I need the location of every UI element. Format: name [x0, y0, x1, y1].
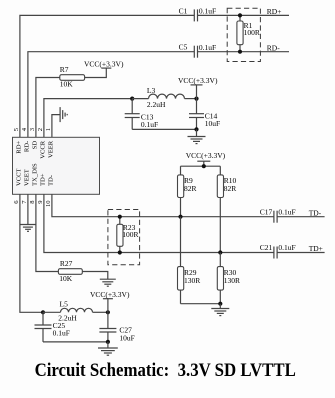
wire RD+ net: pin5 vertical and top horizontal run — [20, 15, 194, 137]
wire C13 to C14 bottom rail — [132, 128, 196, 130]
svg-text:L3: L3 — [147, 86, 156, 95]
svg-text:C1: C1 — [179, 6, 188, 15]
junction R23 bottom — [118, 250, 122, 254]
wire L5 to right junction — [93, 311, 108, 313]
svg-text:100R: 100R — [244, 28, 260, 37]
svg-text:10: 10 — [45, 200, 52, 207]
junction R10 bottom on TD+ — [218, 250, 222, 254]
svg-text:RD+: RD+ — [15, 141, 22, 154]
svg-text:VCC(+3.3V): VCC(+3.3V) — [178, 76, 218, 85]
dashed option box around R1 — [227, 8, 260, 61]
wire junction to L5 — [43, 311, 61, 313]
svg-text:VCCT: VCCT — [15, 168, 22, 186]
capacitor C21 — [260, 243, 296, 258]
IC U1 box — [13, 137, 100, 194]
svg-text:VCC(+3.3V): VCC(+3.3V) — [90, 290, 130, 299]
svg-text:0.1uF: 0.1uF — [199, 43, 216, 52]
ground sideways at VEER — [60, 107, 67, 122]
svg-text:TD-: TD- — [309, 208, 322, 217]
svg-text:C17: C17 — [260, 207, 273, 216]
node junction L3 left — [130, 97, 134, 101]
svg-text:SD: SD — [31, 141, 38, 150]
capacitor C1 — [179, 6, 217, 21]
svg-text:82R: 82R — [224, 184, 237, 193]
wire R27 to ground — [82, 272, 108, 280]
svg-text:RD-: RD- — [267, 43, 280, 52]
wire VEET net: pin7 vertical — [27, 194, 29, 224]
svg-text:TD-: TD- — [47, 175, 54, 186]
junction R23 top — [118, 215, 122, 219]
svg-text:TD+: TD+ — [39, 173, 46, 186]
junction R9 bottom on TD- — [178, 215, 182, 219]
svg-text:VEER: VEER — [47, 140, 54, 158]
capacitor C14 — [189, 99, 220, 130]
svg-text:0.1uF: 0.1uF — [278, 243, 295, 252]
svg-text:100R: 100R — [122, 230, 138, 239]
svg-text:1: 1 — [45, 128, 52, 131]
svg-text:10K: 10K — [59, 274, 73, 283]
node junction C27 bottom — [106, 340, 110, 344]
wire RD+ after C1 — [198, 14, 290, 16]
node junction VCC rail — [202, 164, 206, 168]
wire R7 to VCC — [85, 68, 107, 77]
ground below R30 — [211, 304, 229, 316]
svg-text:0.1uF: 0.1uF — [53, 328, 70, 337]
resistor R23 — [117, 217, 139, 253]
wire TX_DIS net: pin8 vertical to R27 — [36, 194, 59, 271]
svg-text:C21: C21 — [260, 243, 273, 252]
wire TD- after C17 — [277, 216, 325, 218]
node junction C25 tap — [41, 310, 45, 314]
svg-text:10uF: 10uF — [119, 333, 134, 342]
svg-text:0.1uF: 0.1uF — [199, 7, 216, 16]
svg-text:2.2uH: 2.2uH — [147, 100, 166, 109]
wire R9 R10 top rail — [181, 165, 221, 167]
wire VCCT net: pin6 vertical to L5 — [20, 194, 43, 312]
svg-text:0.1uF: 0.1uF — [141, 120, 158, 129]
capacitor C25 — [35, 312, 70, 342]
wire SD net: pin3 vertical to R7 — [36, 78, 60, 138]
wire RD- after C5 — [198, 51, 290, 53]
junction R1 bottom — [238, 50, 242, 54]
power VCC(+3.3V) at L5 — [90, 290, 130, 312]
svg-text:130R: 130R — [224, 276, 240, 285]
capacitor C27 — [99, 312, 134, 342]
resistor R30 — [217, 253, 240, 304]
wire TD- net: pin10 vertical and horizontal run — [52, 194, 274, 216]
svg-text:RD-: RD- — [23, 141, 30, 152]
svg-text:VCC(+3.3V): VCC(+3.3V) — [84, 60, 124, 69]
resistor R1 — [237, 15, 260, 51]
resistor R27 — [58, 259, 82, 283]
resistor R29 — [178, 217, 201, 304]
wire VEER net: pin1 vertical — [52, 115, 60, 138]
power VCC(+3.3V) at R9 R10 — [186, 151, 226, 166]
wire TD+ net: pin9 vertical and horizontal run — [44, 194, 274, 252]
node junction L3 right — [194, 97, 198, 101]
node junction bottom rail — [218, 302, 222, 306]
capacitor C17 — [260, 207, 296, 222]
svg-text:VEET: VEET — [23, 169, 30, 186]
resistor R7 — [60, 65, 85, 88]
svg-text:82R: 82R — [184, 184, 197, 193]
power VCC(+3.3V) at R7 — [84, 60, 124, 69]
wire junction to L3 — [132, 98, 148, 100]
node junction C14 bottom — [194, 127, 198, 131]
wire L3 to right junction — [185, 98, 197, 100]
inductor L3 — [147, 86, 185, 109]
svg-text:2: 2 — [37, 128, 44, 131]
wire C25 to C27 bottom rail — [43, 341, 108, 343]
wire R29 R30 bottom rail — [181, 303, 221, 305]
wire RD- net: pin4 vertical and horizontal run — [28, 52, 194, 138]
wire VCCR net: pin2 vertical to L3 junction — [44, 99, 132, 138]
ground at R27 — [100, 279, 116, 286]
svg-text:R7: R7 — [60, 65, 69, 74]
wire TD+ after C21 — [277, 252, 325, 254]
svg-text:C5: C5 — [179, 43, 188, 52]
svg-text:TX_DIS: TX_DIS — [31, 163, 38, 186]
svg-text:130R: 130R — [184, 276, 200, 285]
junction R1 top — [238, 13, 242, 17]
ground below C27 — [98, 342, 118, 355]
capacitor C13 — [125, 99, 158, 130]
ground below C14 — [188, 129, 206, 143]
dashed option box around R23 — [108, 210, 140, 265]
svg-text:VCC(+3.3V): VCC(+3.3V) — [186, 151, 226, 160]
resistor R10 — [217, 166, 236, 252]
resistor R9 — [178, 166, 197, 217]
svg-text:RD+: RD+ — [267, 7, 282, 16]
svg-text:10K: 10K — [60, 80, 74, 89]
svg-text:0.1uF: 0.1uF — [278, 207, 295, 216]
node junction L5 right — [106, 310, 110, 314]
inductor L5 — [58, 299, 92, 322]
svg-text:Circuit Schematic: 3.3V SD LV: Circuit Schematic: 3.3V SD LVTTL — [35, 360, 296, 381]
svg-text:TD+: TD+ — [309, 244, 323, 253]
power VCC(+3.3V) at L3 — [178, 76, 218, 98]
svg-text:R27: R27 — [60, 259, 73, 268]
svg-text:VCCR: VCCR — [39, 140, 46, 159]
ground at VEET — [20, 225, 36, 232]
svg-text:10uF: 10uF — [205, 119, 220, 128]
svg-text:L5: L5 — [60, 299, 69, 308]
capacitor C5 — [179, 43, 217, 58]
